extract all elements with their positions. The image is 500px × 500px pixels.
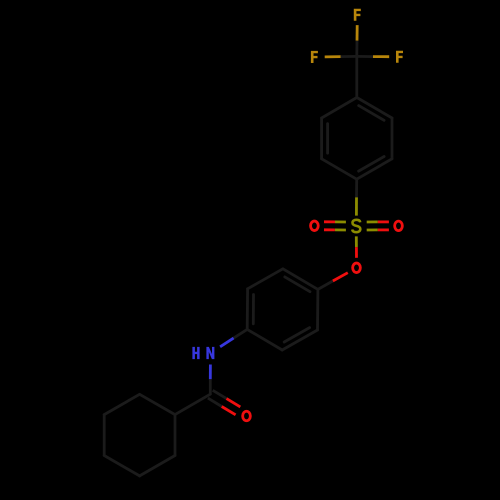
wire ringC e0 [140,394,175,414]
wire ringC e3 [104,456,139,476]
node S sulfonyl [352,220,360,232]
wire ringC e4 [103,415,106,456]
wire ringA e4 (double) [320,118,323,159]
wire F3-C [373,55,389,58]
wire ringB e5 [248,269,283,289]
wire C-ringA [355,56,358,97]
wire ringA e0 (double) [357,98,392,119]
wire ringA e3 [322,159,357,179]
wire ringB e2 (double) [282,330,317,350]
node O carbonyl [243,411,251,421]
wire S=O left (double) [335,220,346,223]
node O ester [353,263,361,273]
wire F2-C [325,55,341,58]
wire ringB e1 [316,289,319,330]
wire ringC e1 [174,415,177,456]
wire S-O ester [355,236,358,247]
node O left [311,221,319,231]
wire C-ringC [175,394,210,414]
wire ringC e2 [140,456,175,476]
node H on N [192,347,199,359]
wire ringA e1 [391,118,394,159]
wire N-C carbonyl [209,365,212,380]
node F top [354,9,361,21]
wire ringB e0 (double) [283,269,318,290]
wire ringA e2 (double) [357,159,392,179]
wire ringC e5 [104,394,139,414]
wire C=O (double) [208,398,222,406]
wire ringA-S [355,179,358,197]
node O right [395,221,403,231]
wire ringA e5 [322,98,357,119]
wire S=O right (double) [367,228,378,231]
wire ringB e4 (double) [246,289,249,330]
node F right [396,51,403,63]
node N amide [206,347,214,359]
wire F1-C [356,25,359,41]
node F left [311,51,318,63]
wire ringB-N [234,329,248,338]
wire O-ringB [333,273,348,281]
wire ringB e3 [247,329,282,350]
